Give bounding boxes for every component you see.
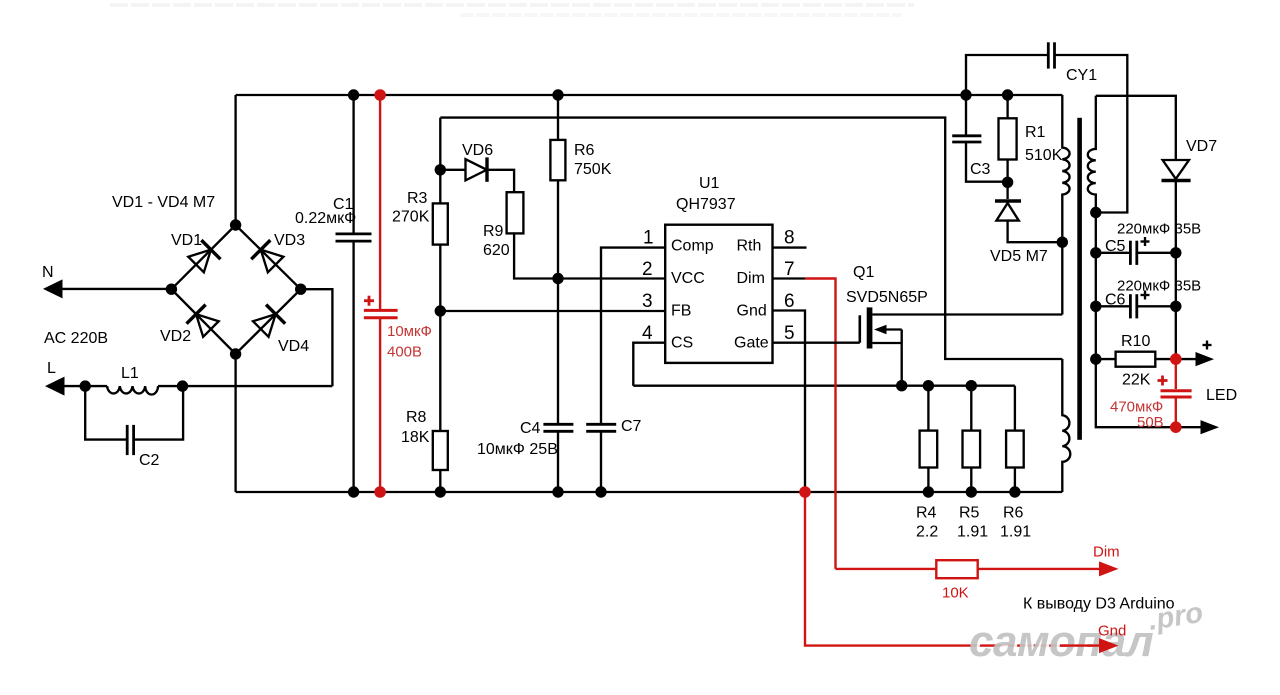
wire CS sense line: [633, 385, 1015, 387]
wire pin 6 Gnd to bus: [773, 311, 806, 493]
svg-text:0.22мкФ: 0.22мкФ: [295, 210, 356, 227]
diode VD2 label: [160, 328, 191, 345]
wire bridge top to bus: [234, 95, 236, 225]
node R6 sense bottom: [1009, 486, 1020, 497]
transformer aux winding: [1062, 359, 1070, 492]
node L1 right junction: [177, 380, 188, 391]
pin number 7: [784, 259, 795, 280]
svg-text:VD7: VD7: [1186, 138, 1217, 155]
wire VD5 to primary: [1008, 221, 1063, 243]
note K vyvodu D3 Arduino: [1023, 596, 1175, 613]
diode VD4: [251, 305, 285, 339]
wire pin 8 Rth stub: [773, 246, 807, 248]
node R8 bottom: [435, 486, 446, 497]
node C5 left: [1090, 247, 1101, 258]
resistor R6 750K: [550, 140, 565, 180]
capacitor C7: [586, 424, 616, 431]
svg-text:270K: 270K: [392, 209, 430, 226]
resistor R10: [1116, 352, 1156, 367]
node primary snubber junction: [1057, 237, 1068, 248]
diode VD2: [187, 305, 221, 339]
svg-text:U1: U1: [699, 175, 720, 192]
wire VD6 row: [440, 170, 514, 192]
node bridge bottom: [230, 348, 241, 359]
node AC 220V label: [44, 330, 108, 347]
svg-text:C5: C5: [1105, 238, 1126, 255]
transistor Q1 drain wire: [872, 313, 1062, 315]
diode VD3: [251, 240, 285, 274]
node R5 top: [966, 380, 977, 391]
svg-text:22K: 22K: [1122, 372, 1151, 389]
svg-text:10мкФ 25В: 10мкФ 25В: [477, 441, 558, 458]
node R10 left: [1090, 353, 1101, 364]
capacitor 470uF output red: [1158, 359, 1192, 427]
capacitor C1: [336, 234, 372, 241]
svg-text:Comp: Comp: [671, 238, 714, 255]
resistor R5 branch: [970, 386, 972, 492]
resistor R4 branch: [927, 386, 929, 492]
node bridge right: [295, 284, 306, 295]
svg-text:R9: R9: [483, 223, 504, 240]
pin number 2: [642, 259, 653, 280]
resistor R9 label: [483, 223, 510, 259]
wire output left rail: [1096, 213, 1176, 428]
pin number 3: [642, 291, 653, 312]
inductor L1: [107, 386, 158, 394]
node C7 bottom: [595, 486, 606, 497]
diode VD7: [1162, 160, 1191, 181]
node bridge top: [230, 219, 241, 230]
resistor R6 750K branch wire: [557, 95, 559, 492]
wire bridge right to L line: [301, 289, 333, 386]
svg-text:620: 620: [483, 242, 510, 259]
resistor 10K label red: [942, 585, 969, 602]
transformer primary winding: [1062, 95, 1069, 315]
svg-text:FB: FB: [671, 302, 691, 319]
svg-text:SVD5N65P: SVD5N65P: [846, 289, 928, 306]
transistor Q1 label: [846, 264, 928, 306]
wire bulk cap branch red: [379, 95, 381, 492]
node Gnd output arrow red: [1060, 638, 1119, 653]
wire C1 branch: [352, 95, 354, 492]
svg-text:510K: 510K: [1025, 147, 1063, 164]
diode VD4 label: [278, 338, 309, 355]
capacitor C2 label: [139, 452, 160, 469]
node L1 left junction: [80, 380, 91, 391]
capacitor C5 label: [1105, 221, 1201, 256]
resistor R5 label: [957, 505, 988, 541]
node bridge left: [166, 284, 177, 295]
diode VD6: [466, 157, 488, 181]
svg-text:N: N: [42, 264, 54, 281]
capacitor C1 label: [295, 196, 356, 227]
wire Dim output red: [836, 561, 1119, 576]
wire aux feed sub-bus: [440, 118, 1062, 359]
diode VD5 label: [990, 248, 1048, 265]
svg-text:5: 5: [784, 323, 795, 344]
wire R10 row: [1096, 358, 1176, 360]
node FB junction: [435, 305, 446, 316]
resistor R4: [920, 431, 938, 468]
pin number 4: [642, 323, 653, 344]
svg-text:4: 4: [642, 323, 653, 344]
bridge group label VD1 - VD4 M7: [112, 194, 215, 211]
svg-text:R4: R4: [916, 505, 937, 522]
svg-text:10мкФ: 10мкФ: [387, 323, 432, 340]
watermark samopal: [969, 597, 1207, 669]
resistor R1 label: [1025, 124, 1063, 164]
diode VD5: [995, 201, 1021, 221]
svg-text:6: 6: [784, 291, 795, 312]
svg-text:Rth: Rth: [737, 238, 762, 255]
svg-text:VCC: VCC: [671, 270, 705, 287]
U1 part number label: [676, 196, 736, 213]
U1 pin name Dim: [737, 270, 765, 287]
svg-text:VD6: VD6: [462, 142, 493, 159]
svg-text:750K: 750K: [574, 161, 612, 178]
transistor Q1 body arrow: [874, 325, 902, 335]
svg-text:QH7937: QH7937: [676, 196, 736, 213]
transistor Q1 source wire: [872, 330, 901, 386]
resistor R3: [433, 203, 448, 244]
resistor R6 sense: [1006, 431, 1024, 468]
wire C3 branch: [966, 95, 1008, 182]
svg-text:1.91: 1.91: [957, 524, 988, 541]
wire pin 5 Gate lead: [773, 342, 860, 344]
U1 pin name Rth: [737, 238, 762, 255]
wire Comp branch: [601, 248, 665, 492]
svg-text:Q1: Q1: [853, 264, 874, 281]
wire pin 4 CS loop: [633, 343, 665, 386]
svg-text:Dim: Dim: [737, 270, 765, 287]
svg-text:10K: 10K: [942, 585, 969, 602]
node output plus red: [1170, 353, 1182, 365]
svg-text:C4: C4: [520, 420, 541, 437]
resistor R9: [507, 192, 524, 233]
wire output positive rail: [1175, 181, 1177, 360]
svg-text:2.2: 2.2: [916, 524, 938, 541]
wire VCC line: [514, 233, 665, 278]
node C5 right: [1170, 247, 1181, 258]
capacitor C4 label: [477, 420, 558, 458]
resistor 10K red: [936, 560, 977, 578]
svg-text:220мкФ 35В: 220мкФ 35В: [1117, 278, 1201, 295]
capacitor C6: [1096, 291, 1176, 319]
capacitor C5: [1096, 237, 1176, 265]
U1 pin name Gate: [734, 335, 769, 352]
svg-text:L1: L1: [121, 365, 139, 382]
diode VD3 label: [274, 232, 305, 249]
capacitor C2: [127, 425, 133, 455]
transformer secondary winding: [1088, 96, 1096, 213]
capacitor CY1: [1048, 42, 1054, 68]
svg-text:VD1 - VD4 M7: VD1 - VD4 M7: [112, 194, 215, 211]
pin number 1: [643, 228, 654, 249]
svg-text:VD2: VD2: [160, 328, 191, 345]
resistor R6 750K label: [574, 142, 612, 178]
wire L line: [45, 377, 332, 396]
wire bridge bottom to bus: [234, 354, 236, 492]
svg-text:50В: 50В: [1137, 414, 1164, 431]
svg-text:C7: C7: [621, 418, 642, 435]
wire secondary top to VD7: [1096, 96, 1176, 160]
diode VD1 label: [171, 232, 202, 249]
capacitor C4: [543, 424, 573, 431]
wire CY1 branch: [966, 55, 1127, 213]
wire FB line: [440, 310, 665, 312]
transistor Q1 channel bar: [867, 307, 873, 348]
node Gnd pin bus junction red: [799, 486, 811, 498]
node C1 bottom: [348, 486, 359, 497]
node output minus red: [1170, 421, 1182, 433]
pin number 6: [784, 291, 795, 312]
wire N line: [43, 279, 171, 298]
diode VD1: [187, 240, 221, 274]
wire bottom bus: [236, 491, 1063, 493]
svg-text:8: 8: [784, 228, 795, 249]
U1 pin name VCC: [671, 270, 705, 287]
svg-text:R8: R8: [406, 409, 427, 426]
wire negative output arrow: [1176, 420, 1219, 434]
wire positive output arrow: [1176, 341, 1214, 367]
U1 pin name Comp: [671, 238, 714, 255]
node VCC junction: [552, 273, 563, 284]
svg-text:VD5 M7: VD5 M7: [990, 248, 1048, 265]
capacitor C3 label: [970, 161, 991, 178]
resistor R3 label: [392, 190, 430, 226]
node Q1 source junction: [896, 380, 907, 391]
capacitor 470uF label red: [1110, 399, 1164, 432]
svg-text:2: 2: [642, 259, 653, 280]
node VD6 anode junction: [435, 164, 446, 175]
node C1 top: [348, 89, 359, 100]
node R1 top: [1002, 89, 1013, 100]
wire pin 7 Dim stub black part: [773, 277, 806, 279]
capacitor C7 label: [621, 418, 642, 435]
node N label: [42, 264, 54, 281]
svg-text:AC 220В: AC 220В: [44, 330, 108, 347]
svg-text:470мкФ: 470мкФ: [1110, 399, 1163, 416]
svg-text:VD3: VD3: [274, 232, 305, 249]
svg-text:R6: R6: [1003, 505, 1024, 522]
svg-text:C3: C3: [970, 161, 991, 178]
svg-text:Gate: Gate: [734, 335, 769, 352]
svg-text:1: 1: [643, 228, 654, 249]
diode VD7 label: [1186, 138, 1217, 155]
svg-text:R5: R5: [959, 505, 980, 522]
svg-text:R3: R3: [407, 190, 428, 207]
svg-text:R10: R10: [1121, 333, 1150, 350]
svg-text:Dim: Dim: [1093, 544, 1120, 561]
capacitor CY1 label: [1066, 67, 1097, 84]
U1 pin name CS: [671, 335, 693, 352]
capacitor C3: [952, 136, 981, 142]
svg-text:CS: CS: [671, 335, 693, 352]
svg-text:1.91: 1.91: [1000, 524, 1031, 541]
node R4 bottom: [923, 486, 934, 497]
resistor R8 label: [401, 409, 430, 446]
node Gnd label red: [1098, 623, 1126, 640]
node C6 left: [1090, 301, 1101, 312]
node R4 top: [923, 380, 934, 391]
resistor R5: [963, 431, 981, 468]
svg-text:220мкФ 35В: 220мкФ 35В: [1117, 221, 1201, 238]
LED label: [1206, 387, 1237, 404]
svg-text:VD1: VD1: [171, 232, 202, 249]
svg-text:VD4: VD4: [278, 338, 309, 355]
inductor L1 label: [121, 365, 139, 382]
node L label: [47, 360, 56, 377]
resistor R8: [433, 431, 448, 470]
svg-text:400В: 400В: [387, 344, 422, 361]
capacitor bulk value label: [387, 323, 432, 361]
node CY1 left junction: [960, 89, 971, 100]
U1 pin name Gnd: [737, 302, 767, 319]
transformer core: [1077, 118, 1082, 440]
svg-text:C2: C2: [139, 452, 160, 469]
svg-text:R1: R1: [1025, 124, 1046, 141]
wire pin 7 Dim red: [805, 279, 836, 569]
diode VD6 label: [462, 142, 493, 159]
capacitor bulk 10uF 400V red: [364, 296, 398, 318]
U1 reference label: [699, 175, 720, 192]
resistor R6 sense branch: [1014, 386, 1016, 492]
wire top bus: [236, 94, 1063, 96]
svg-text:R6: R6: [574, 142, 595, 159]
U1 pin name FB: [671, 302, 691, 319]
svg-text:LED: LED: [1206, 387, 1237, 404]
resistor R1: [999, 118, 1017, 159]
wire Gnd output red: [805, 492, 1100, 646]
pin number 5: [784, 323, 795, 344]
wire R3 branch: [439, 118, 441, 492]
node Dim label red: [1093, 544, 1120, 561]
wire C2 loop: [85, 386, 183, 440]
resistor R6 sense label: [1000, 505, 1031, 541]
svg-text:7: 7: [784, 259, 795, 280]
node secondary bottom junction: [1090, 207, 1101, 218]
svg-text:Gnd: Gnd: [1098, 623, 1126, 640]
svg-text:L: L: [47, 360, 56, 377]
node C6 right: [1170, 301, 1181, 312]
node C4 bottom: [552, 486, 563, 497]
pin number 8: [784, 228, 795, 249]
node R6 top: [552, 89, 563, 100]
resistor R4 label: [916, 505, 938, 541]
capacitor C6 label: [1105, 278, 1201, 309]
node R1 bottom junction: [1002, 177, 1013, 188]
transistor Q1 gate bar: [858, 315, 861, 342]
wire bridge diamond: [171, 225, 300, 354]
svg-text:3: 3: [642, 291, 653, 312]
node bulk cap bottom red: [374, 486, 386, 498]
node R5 bottom: [966, 486, 977, 497]
wire R1 branch: [1006, 95, 1008, 199]
svg-text:18K: 18K: [401, 429, 430, 446]
resistor R10 label: [1121, 333, 1151, 389]
svg-text:Gnd: Gnd: [737, 302, 767, 319]
op-amp U1 QH7937 body: [665, 225, 772, 363]
svg-text:CY1: CY1: [1066, 67, 1097, 84]
node bulk cap top red: [374, 89, 386, 101]
